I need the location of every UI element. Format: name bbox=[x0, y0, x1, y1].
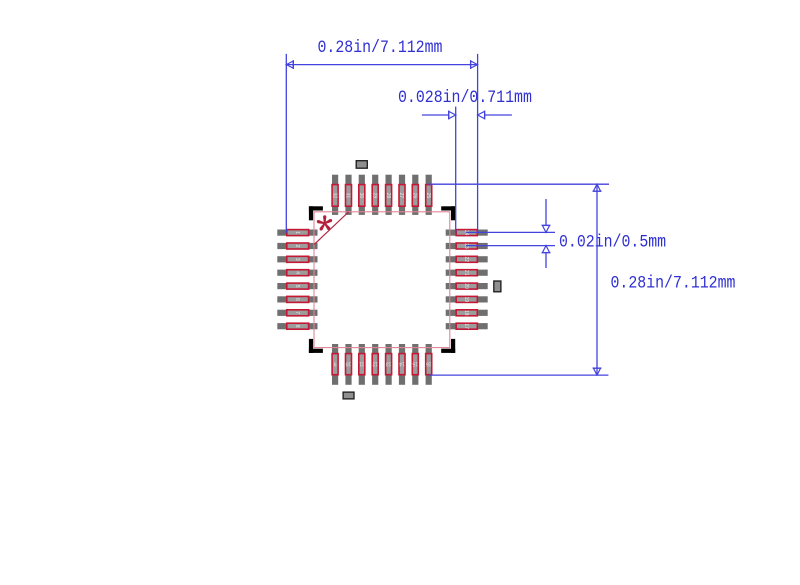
pad pin 17 bbox=[446, 323, 488, 329]
orientation marker bottom bbox=[343, 392, 354, 399]
svg-text:29: 29 bbox=[371, 193, 377, 199]
pad pin 24 bbox=[446, 230, 488, 236]
silkscreen corner bracket bottom-left bbox=[309, 339, 323, 353]
svg-text:14: 14 bbox=[399, 360, 405, 366]
silkscreen corner bracket top-left bbox=[309, 206, 323, 220]
pad pin 3 bbox=[277, 256, 317, 262]
svg-text:0.02in/0.5mm: 0.02in/0.5mm bbox=[559, 232, 666, 252]
svg-text:16: 16 bbox=[426, 360, 432, 366]
svg-text:30: 30 bbox=[358, 193, 364, 199]
orientation marker top bbox=[356, 161, 367, 169]
pad pin 11 bbox=[359, 344, 365, 385]
pad pin 26 bbox=[412, 175, 419, 215]
svg-text:11: 11 bbox=[359, 360, 364, 366]
svg-text:19: 19 bbox=[463, 297, 469, 303]
svg-text:0.028in/0.711mm: 0.028in/0.711mm bbox=[398, 87, 532, 107]
pad pin 20 bbox=[446, 283, 488, 289]
pad pin 16 bbox=[426, 344, 432, 385]
pad pin 19 bbox=[446, 296, 488, 302]
pad pin 10 bbox=[345, 344, 351, 385]
svg-text:8: 8 bbox=[294, 325, 300, 328]
svg-text:27: 27 bbox=[398, 193, 404, 199]
pad pin 30 bbox=[358, 175, 365, 215]
dimension extension line right (pin25 pad right edge) bbox=[477, 54, 479, 233]
dimension extension line bottom (bottom pads) bbox=[429, 374, 609, 376]
pad pin 21 bbox=[446, 270, 488, 276]
pad pin 25 bbox=[425, 175, 432, 215]
pad pin 23 bbox=[446, 243, 488, 249]
pad pin 12 bbox=[372, 344, 378, 385]
svg-text:7: 7 bbox=[294, 311, 300, 314]
pad pin 32 bbox=[331, 175, 338, 215]
svg-text:1: 1 bbox=[294, 231, 300, 234]
svg-text:17: 17 bbox=[463, 323, 469, 329]
svg-text:26: 26 bbox=[412, 193, 418, 199]
svg-text:13: 13 bbox=[386, 360, 392, 366]
svg-text:22: 22 bbox=[463, 257, 469, 263]
dimension line 0.028in with inward arrows bbox=[422, 111, 512, 120]
svg-text:9: 9 bbox=[333, 360, 336, 366]
svg-text:5: 5 bbox=[294, 285, 300, 288]
pad pin 2 bbox=[277, 243, 317, 249]
svg-text:21: 21 bbox=[463, 270, 469, 276]
svg-text:2: 2 bbox=[294, 245, 300, 248]
dimension extension line left (pin1 pad left edge) bbox=[285, 54, 287, 233]
svg-text:20: 20 bbox=[463, 283, 469, 289]
pad pin 13 bbox=[386, 344, 392, 385]
pad pin 14 bbox=[399, 344, 405, 385]
pad pin 27 bbox=[398, 175, 405, 215]
svg-text:32: 32 bbox=[331, 193, 337, 199]
orientation marker right bbox=[494, 281, 501, 292]
svg-text:18: 18 bbox=[463, 310, 469, 316]
pin-1 chamfer line bbox=[314, 212, 348, 244]
pad pin 7 bbox=[277, 310, 317, 316]
pad pin 15 bbox=[412, 344, 418, 385]
pad pin 8 bbox=[277, 323, 317, 329]
svg-text:10: 10 bbox=[346, 360, 352, 366]
dimension arrows 0.02in bbox=[542, 199, 551, 268]
svg-text:12: 12 bbox=[372, 360, 378, 366]
pad pin 9 bbox=[332, 344, 338, 385]
pad pin 28 bbox=[385, 175, 392, 215]
pad pin 6 bbox=[277, 296, 317, 302]
silkscreen corner bracket bottom-right bbox=[441, 339, 455, 353]
IC body outline bbox=[314, 212, 450, 348]
dimension extension line pin25 pad left edge bbox=[455, 107, 457, 233]
pad pin 4 bbox=[277, 270, 317, 276]
pad pin 22 bbox=[446, 256, 488, 262]
dimension extension line top (top pads) bbox=[429, 183, 610, 185]
svg-text:25: 25 bbox=[425, 193, 431, 199]
svg-text:31: 31 bbox=[345, 193, 351, 199]
pad pin 29 bbox=[371, 175, 378, 215]
svg-text:0.28in/7.112mm: 0.28in/7.112mm bbox=[318, 37, 443, 57]
dimension leader line pin23 center bbox=[466, 245, 555, 247]
svg-text:4: 4 bbox=[294, 271, 300, 274]
dimension line 0.28in top bbox=[286, 60, 477, 69]
pad pin 18 bbox=[446, 310, 488, 316]
pad pin 5 bbox=[277, 283, 317, 289]
svg-text:0.28in/7.112mm: 0.28in/7.112mm bbox=[611, 272, 736, 292]
svg-text:3: 3 bbox=[294, 258, 300, 261]
pad pin 31 bbox=[345, 175, 352, 215]
dimension leader line pin24 center bbox=[466, 231, 555, 233]
silkscreen corner bracket top-right bbox=[441, 206, 455, 220]
pin-1 marker asterisk bbox=[317, 215, 332, 230]
svg-text:6: 6 bbox=[294, 298, 300, 301]
svg-text:15: 15 bbox=[412, 360, 418, 366]
svg-text:28: 28 bbox=[385, 193, 391, 199]
pad pin 1 bbox=[277, 230, 317, 236]
dimension line 0.28in right bbox=[593, 184, 602, 375]
